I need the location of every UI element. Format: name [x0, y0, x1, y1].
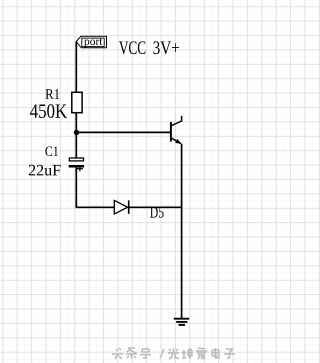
char 头	[112, 348, 123, 359]
wire D5 cathode to emitter net	[129, 206, 182, 208]
char 爱	[196, 348, 207, 359]
port label text "port"	[84, 39, 102, 48]
VCC text "VCC"	[119, 41, 145, 54]
transistor Q1 collector diagonal	[171, 121, 182, 126]
transistor Q1 collector stub	[181, 116, 183, 122]
char 条	[126, 348, 137, 359]
wire emitter to ground	[181, 144, 183, 318]
char 号	[140, 349, 151, 358]
wire C1 down and right to D5 anode	[76, 167, 114, 207]
wire node to transistor base	[76, 131, 171, 133]
22uF text "22uF"	[29, 165, 61, 176]
transistor Q1 emitter arrow	[175, 139, 181, 144]
D5 text "D5"	[150, 207, 164, 218]
diode D5 triangle	[114, 200, 127, 214]
char 子	[224, 349, 235, 358]
capacitor C1 bottom plate	[69, 165, 84, 168]
port P1 flag outline	[76, 36, 106, 48]
R1 text "R1"	[45, 89, 59, 99]
capacitor C1 polarity plus	[77, 168, 83, 170]
wire R1 to C1	[75, 113, 77, 159]
transistor Q1 emitter diagonal	[171, 138, 181, 144]
3V+ text "3V+"	[153, 41, 179, 54]
slash	[160, 349, 164, 358]
capacitor C1 top plate	[69, 158, 83, 161]
diode D5 cathode bar	[128, 200, 130, 214]
char 电	[212, 348, 220, 358]
char 坤	[182, 348, 192, 359]
C1 text "C1"	[45, 147, 58, 157]
ground symbol	[174, 319, 189, 325]
junction node dot	[74, 130, 79, 135]
char 光	[168, 348, 179, 359]
transistor Q1 base bar	[170, 122, 172, 142]
watermark 头条号 / 光坤爱电子	[112, 348, 235, 359]
port P1 name box	[82, 38, 104, 47]
450K text "450K"	[30, 104, 67, 118]
wire port to R1	[75, 42, 77, 93]
resistor R1 body	[72, 92, 82, 112]
